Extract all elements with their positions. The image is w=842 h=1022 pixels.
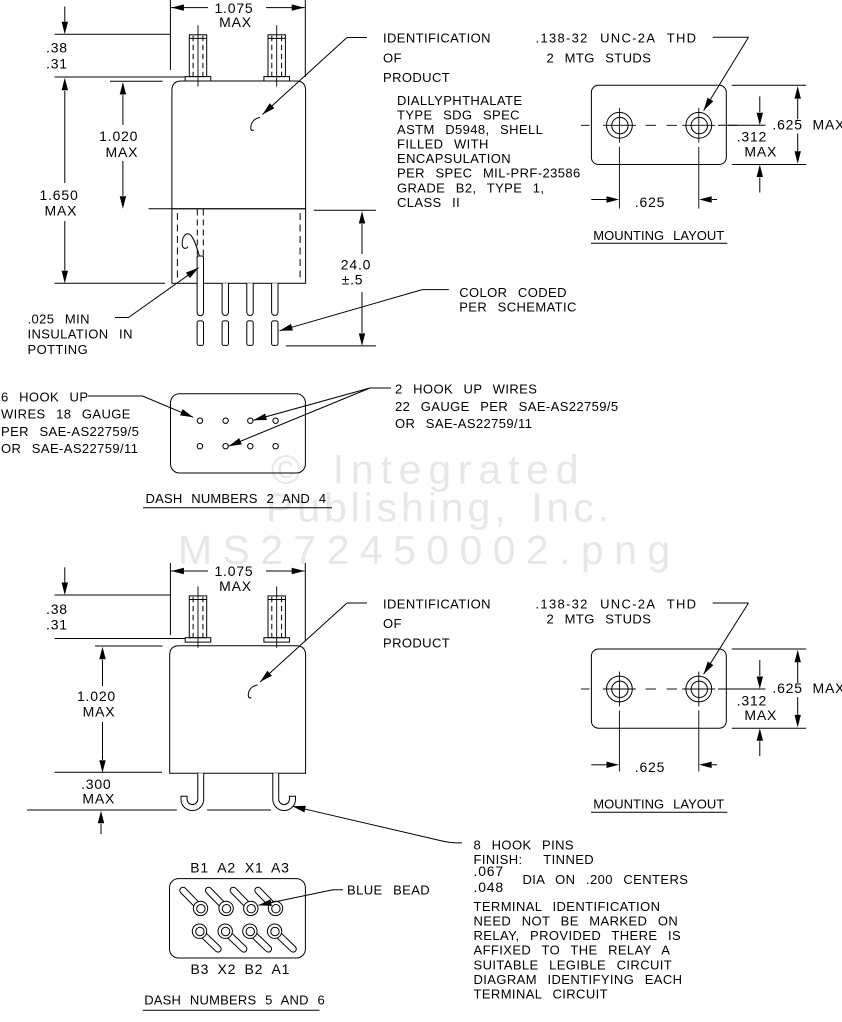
svg-text:.025 MIN: .025 MIN (28, 312, 90, 327)
hook pin left (lower relay) (181, 773, 204, 810)
extension line hole center right (lower) (718, 688, 766, 690)
mounting stud right (upper relay) (276, 25, 278, 86)
svg-text:.312: .312 (737, 129, 767, 145)
dimension 1.075 MAX extension lines (upper relay) (169, 0, 171, 70)
hole centerlines extended below plate (upper) (618, 147, 620, 209)
svg-text:OR SAE-AS22759/11: OR SAE-AS22759/11 (1, 441, 138, 456)
hook-up wires lower segments (upper relay) (197, 321, 203, 346)
dimension 1.020 MAX line (lower relay) (99, 647, 105, 660)
svg-text:ASTM D5948, SHELL: ASTM D5948, SHELL (397, 122, 543, 137)
wire channel dashed lines (upper relay) (196, 210, 198, 257)
svg-text:8 HOOK PINS: 8 HOOK PINS (474, 838, 574, 853)
svg-text:MOUNTING LAYOUT: MOUNTING LAYOUT (593, 797, 724, 812)
mounting stud left (upper relay) (197, 25, 199, 86)
leader thread callout to right hole (lower) (713, 602, 749, 604)
extension line hole center right (upper) (718, 124, 766, 126)
svg-text:IDENTIFICATION: IDENTIFICATION (383, 596, 491, 611)
mounting stud hole left inner circle (lower) (612, 681, 628, 697)
svg-text:PER SCHEMATIC: PER SCHEMATIC (459, 300, 577, 315)
internal wire route curve (upper relay) (182, 234, 199, 256)
svg-text:MAX: MAX (82, 791, 115, 807)
svg-text:DIAGRAM IDENTIFYING EACH: DIAGRAM IDENTIFYING EACH (474, 972, 683, 987)
svg-text:±.5: ±.5 (342, 272, 364, 288)
dimension line 1.075 (lower relay) (171, 570, 208, 572)
leader .025 MIN insulation (115, 317, 129, 319)
svg-text:.300: .300 (81, 776, 111, 792)
svg-text:AFFIXED TO THE RELAY A: AFFIXED TO THE RELAY A (474, 943, 671, 958)
svg-text:.138-32 UNC-2A THD: .138-32 UNC-2A THD (536, 31, 698, 46)
mounting stud hole right inner circle (lower) (691, 681, 707, 697)
relay body (lower relay) (170, 646, 306, 774)
svg-text:MAX: MAX (744, 707, 777, 723)
center mark left hole (lower) (603, 688, 636, 690)
svg-text:2 MTG STUDS: 2 MTG STUDS (547, 51, 652, 66)
extension line potting bottom left (upper relay) (55, 282, 166, 284)
potting inset dashed line right (upper relay) (299, 213, 301, 282)
svg-text:.31: .31 (46, 55, 68, 71)
title underline DASH NUMBERS 5 AND 6 (143, 1009, 320, 1011)
dimension line 1.075 (upper relay) (171, 7, 208, 9)
svg-text:OR SAE-AS22759/11: OR SAE-AS22759/11 (395, 416, 532, 431)
dimension 24.0 line (upper relay) (359, 211, 365, 224)
bottom view outline dash 5-6 (170, 879, 306, 958)
leader 6 hook up wires (88, 395, 143, 397)
potting inset dashed line left (upper relay) (176, 213, 178, 282)
dimension arrow .38 (upper relay) (64, 7, 66, 23)
relay body upper section (upper relay) (172, 81, 306, 209)
leader identification of product (lower relay) (347, 602, 367, 604)
svg-text:X2: X2 (218, 961, 237, 977)
extension line body top (upper relay) (110, 80, 163, 82)
leader thread callout to right hole (upper) (713, 36, 749, 38)
title underline MOUNTING LAYOUT (upper) (591, 242, 727, 244)
svg-text:TERMINAL IDENTIFICATION: TERMINAL IDENTIFICATION (474, 899, 661, 914)
svg-text:MAX: MAX (744, 143, 777, 159)
hook pin right (lower relay) (273, 773, 296, 810)
svg-text:RELAY, PROVIDED THERE IS: RELAY, PROVIDED THERE IS (474, 928, 682, 943)
dimension .312 MAX (lower) (759, 660, 761, 676)
mounting stud hole left outer circle (lower) (607, 676, 633, 702)
svg-text:OF: OF (383, 616, 402, 631)
center line through holes (lower) (581, 688, 590, 690)
center mark right hole (lower) (682, 688, 715, 690)
svg-text:PER SPEC MIL-PRF-23586: PER SPEC MIL-PRF-23586 (397, 166, 581, 181)
dimension .312 MAX (upper) (759, 96, 761, 112)
svg-text:COLOR CODED: COLOR CODED (459, 285, 567, 300)
svg-text:FILLED WITH: FILLED WITH (397, 137, 489, 152)
leader 8 hook pins (293, 806, 463, 843)
svg-text:WIRES 18 GAUGE: WIRES 18 GAUGE (1, 407, 131, 422)
dimension .625 MAX overall (upper) (795, 86, 801, 99)
svg-text:2 HOOK UP WIRES: 2 HOOK UP WIRES (395, 382, 537, 397)
svg-text:DIA ON .200 CENTERS: DIA ON .200 CENTERS (523, 872, 689, 887)
dimension arrow .38 (lower relay) (64, 567, 66, 583)
mounting stud hole right outer circle (lower) (686, 676, 712, 702)
svg-text:PRODUCT: PRODUCT (383, 636, 450, 651)
svg-text:MAX: MAX (219, 14, 252, 30)
svg-text:BLUE BEAD: BLUE BEAD (347, 882, 430, 897)
bottom view outline dash 2-4 (171, 394, 306, 473)
terminal wire holes dash 2-4 (197, 418, 202, 423)
dimension .625 between holes (lower) (591, 764, 606, 766)
svg-text:TERMINAL CIRCUIT: TERMINAL CIRCUIT (474, 987, 608, 1002)
extension lines right of plate (upper) (732, 84, 806, 86)
svg-text:.38: .38 (46, 601, 68, 617)
svg-text:24.0: 24.0 (341, 257, 371, 273)
svg-text:.625: .625 (635, 759, 665, 775)
svg-text:POTTING: POTTING (28, 342, 89, 357)
leader color coded (422, 289, 449, 291)
leader blue bead (333, 889, 343, 891)
leader 2 hook up wires to row1 hole (370, 387, 391, 389)
mounting stud right (lower relay) (276, 586, 278, 647)
svg-text:ENCAPSULATION: ENCAPSULATION (397, 151, 511, 166)
svg-text:MAX: MAX (219, 578, 252, 594)
dimension .625 between holes (upper) (591, 199, 606, 201)
hole centerlines extended below plate (lower) (618, 711, 620, 772)
leader identification of product (upper relay) (347, 37, 367, 39)
extension lines right of plate (lower) (732, 648, 806, 650)
svg-text:.625 MAX: .625 MAX (772, 116, 842, 132)
relay potting section (upper relay) (172, 209, 306, 283)
svg-text:.067: .067 (474, 863, 504, 879)
svg-text:22 GAUGE PER SAE-AS22759/5: 22 GAUGE PER SAE-AS22759/5 (395, 399, 619, 414)
center mark left hole (upper) (603, 124, 636, 126)
svg-text:A2: A2 (217, 860, 236, 876)
svg-text:DASH NUMBERS 5 AND 6: DASH NUMBERS 5 AND 6 (144, 993, 325, 1008)
svg-text:.31: .31 (46, 616, 68, 632)
mounting stud hole left inner circle (upper) (612, 117, 628, 133)
hook pins top row dash 5-6 (180, 887, 203, 910)
svg-text:A1: A1 (272, 961, 291, 977)
dimension 1.650 MAX line (upper relay) (62, 78, 68, 91)
svg-text:.625 MAX: .625 MAX (772, 680, 842, 696)
extension line divider right (upper relay) (314, 209, 376, 211)
svg-text:.138-32 UNC-2A THD: .138-32 UNC-2A THD (536, 596, 698, 611)
svg-text:X1: X1 (245, 860, 264, 876)
svg-text:PRODUCT: PRODUCT (383, 70, 450, 85)
mounting stud left (lower relay) (197, 586, 199, 647)
svg-text:A3: A3 (271, 860, 290, 876)
extension line divider (upper relay) (149, 208, 172, 210)
svg-text:6 HOOK UP: 6 HOOK UP (1, 390, 88, 405)
svg-text:.048: .048 (474, 879, 504, 895)
svg-text:INSULATION IN: INSULATION IN (28, 327, 133, 342)
svg-text:2 MTG STUDS: 2 MTG STUDS (547, 611, 652, 626)
svg-text:NEED NOT BE MARKED ON: NEED NOT BE MARKED ON (474, 914, 679, 929)
mounting layout plate outline (lower) (591, 649, 726, 728)
mounting stud hole left outer circle (upper) (607, 112, 633, 138)
center mark right hole (upper) (682, 124, 715, 126)
mounting stud hole right outer circle (upper) (686, 112, 712, 138)
mounting stud hole right inner circle (upper) (691, 117, 707, 133)
svg-text:B3: B3 (191, 961, 210, 977)
svg-text:1.075: 1.075 (214, 563, 253, 579)
hook bottom reference line (lower relay) (27, 809, 177, 811)
svg-text:CLASS II: CLASS II (397, 195, 460, 210)
dimension .625 MAX overall (lower) (795, 650, 801, 663)
dimension 1.020 MAX line (upper relay) (120, 82, 126, 95)
mounting layout plate outline (upper) (591, 85, 726, 164)
svg-text:PER SAE-AS22759/5: PER SAE-AS22759/5 (1, 424, 139, 439)
svg-text:TYPE SDG SPEC: TYPE SDG SPEC (397, 108, 520, 123)
svg-text:1.020: 1.020 (99, 128, 138, 144)
extension line body bottom (lower relay) (55, 771, 163, 773)
hook pins bottom row dash 5-6 (197, 929, 221, 952)
hook-up wires upper segments (upper relay) (197, 256, 203, 316)
svg-text:1.020: 1.020 (77, 688, 116, 704)
svg-text:.38: .38 (46, 39, 68, 55)
svg-text:IDENTIFICATION: IDENTIFICATION (383, 31, 491, 46)
svg-text:DASH NUMBERS 2 AND 4: DASH NUMBERS 2 AND 4 (146, 491, 327, 506)
title underline MOUNTING LAYOUT (lower) (591, 811, 727, 813)
dimension .38 .31 reference lines (lower relay) (55, 594, 171, 596)
svg-text:B2: B2 (245, 961, 264, 977)
svg-text:GRADE B2, TYPE 1,: GRADE B2, TYPE 1, (397, 180, 544, 195)
svg-text:OF: OF (383, 50, 402, 65)
leader 2 hook up wires to row2 hole (229, 388, 371, 446)
dimension 1.075 MAX extension lines (lower relay) (169, 563, 171, 635)
svg-text:MOUNTING LAYOUT: MOUNTING LAYOUT (593, 228, 724, 243)
svg-text:SUITABLE LEGIBLE CIRCUIT: SUITABLE LEGIBLE CIRCUIT (474, 958, 673, 973)
svg-text:MAX: MAX (83, 703, 116, 719)
svg-text:1.650: 1.650 (40, 187, 79, 203)
dimension .38 .31 reference lines (upper relay) (55, 33, 171, 35)
svg-text:MAX: MAX (45, 203, 78, 219)
svg-text:DIALLYPHTHALATE: DIALLYPHTHALATE (397, 93, 522, 108)
center line through holes (upper) (581, 124, 590, 126)
svg-text:B1: B1 (190, 860, 209, 876)
svg-text:.312: .312 (737, 692, 767, 708)
extension line body top (lower relay) (95, 645, 163, 647)
svg-text:MAX: MAX (106, 144, 139, 160)
title underline DASH NUMBERS 2 AND 4 (143, 507, 332, 509)
svg-text:.625: .625 (635, 194, 665, 210)
extension line wire end right (upper relay) (286, 345, 376, 347)
dimension arrow .300 (lower relay) (98, 811, 104, 824)
